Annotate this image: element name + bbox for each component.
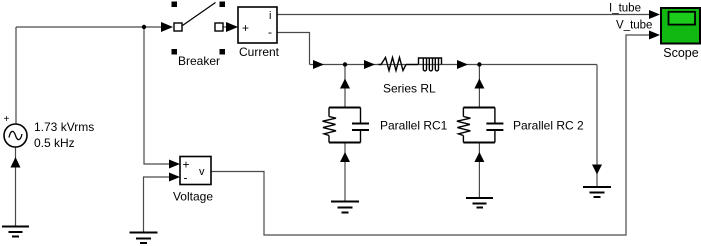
svg-text:Scope: Scope <box>663 46 698 60</box>
svg-text:I_tube: I_tube <box>609 3 641 15</box>
svg-text:Parallel RC1: Parallel RC1 <box>380 119 448 133</box>
svg-text:V_tube: V_tube <box>616 20 652 32</box>
svg-text:-: - <box>184 171 188 185</box>
svg-text:+: + <box>242 21 249 35</box>
svg-text:Series RL: Series RL <box>383 82 436 96</box>
svg-text:Voltage: Voltage <box>173 190 213 204</box>
svg-text:0.5 kHz: 0.5 kHz <box>34 136 75 150</box>
svg-text:-: - <box>268 25 272 39</box>
svg-text:v: v <box>199 166 205 178</box>
svg-text:Current: Current <box>239 45 280 59</box>
svg-text:i: i <box>269 10 271 22</box>
svg-text:+: + <box>183 158 190 172</box>
svg-text:Breaker: Breaker <box>178 54 220 68</box>
svg-text:+: + <box>4 114 10 125</box>
svg-text:1.73 kVrms: 1.73 kVrms <box>34 120 94 134</box>
svg-text:Parallel RC 2: Parallel RC 2 <box>513 119 584 133</box>
